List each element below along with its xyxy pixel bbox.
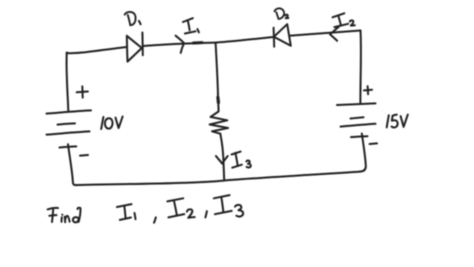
wire middle branch upper <box>216 43 219 111</box>
wire right vertical upper <box>359 31 362 105</box>
text Find <box>48 208 58 222</box>
label minus B2 <box>370 142 377 145</box>
wire battery B1 to bottom-left corner <box>68 144 76 185</box>
wire blob <box>216 98 220 103</box>
wire resistor to bottom <box>220 134 224 181</box>
diode D1 bar <box>141 33 143 56</box>
wire junction to D2 <box>216 37 274 43</box>
wire left vertical <box>67 53 69 111</box>
label D1 <box>125 12 136 25</box>
wire overdraw <box>194 41 203 44</box>
battery B1 plate long bottom <box>47 131 90 134</box>
battery B1 plate long top <box>47 110 92 113</box>
text I1 <box>117 204 132 220</box>
label I3 <box>232 152 242 168</box>
current arrow I3 <box>216 156 228 164</box>
text comma 2 <box>205 211 207 217</box>
label 10V <box>101 117 103 129</box>
wire D2 to top-right corner <box>291 31 361 36</box>
label minus B1 <box>80 154 88 157</box>
label I1 <box>183 18 196 33</box>
battery B2 plate long top <box>337 103 376 105</box>
battery B1 plate short <box>58 123 76 124</box>
diode D2 bar <box>273 28 276 47</box>
battery B2 plate short <box>351 117 364 118</box>
wire bottom <box>75 172 360 186</box>
text I3 <box>214 195 232 214</box>
battery B2 plate short bottom <box>351 135 368 138</box>
label 15V <box>387 115 389 127</box>
diode D1 triangle <box>127 36 142 62</box>
current arrow I1 <box>176 36 184 53</box>
wire battery B2 to bottom-right corner <box>360 134 366 172</box>
diode D2 triangle <box>274 24 291 46</box>
text I2 <box>167 198 184 217</box>
label plus B2 <box>364 86 372 94</box>
battery B2 plate long bottom <box>341 124 376 127</box>
wire D1 to junction <box>143 43 216 46</box>
label I2 <box>333 13 349 27</box>
wire top-left horizontal <box>67 47 127 53</box>
battery B1 plate short bottom <box>60 146 77 147</box>
resistor R <box>210 112 228 134</box>
label plus B1 <box>77 86 88 97</box>
current arrow I2 <box>330 27 338 41</box>
label D2 <box>274 8 284 19</box>
text comma 1 <box>154 217 156 222</box>
